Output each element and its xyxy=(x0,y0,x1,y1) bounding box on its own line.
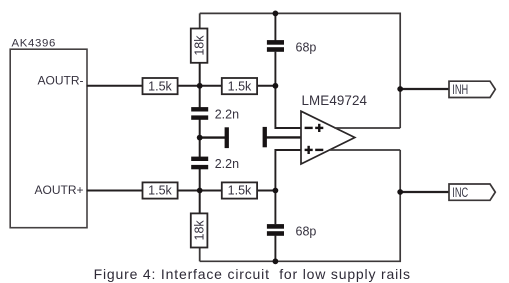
wire op-amp OUT- (bottom output) xyxy=(330,149,400,151)
label 2.2n (lower) xyxy=(215,157,239,171)
svg-text:2.2n: 2.2n xyxy=(215,107,239,121)
wire op-amp IN- lead xyxy=(275,86,301,128)
junction node A (row1 / middle chain) xyxy=(197,83,203,89)
label 2.2n (upper) xyxy=(215,107,239,121)
svg-text:Figure 4: Interface circuit f: Figure 4: Interface circuit for low supp… xyxy=(94,266,411,282)
wire 68p bottom stub lower xyxy=(274,236,276,262)
op-amp output polarity plus (top-right inside) xyxy=(315,124,323,132)
capacitor 68p (top) xyxy=(267,40,284,52)
resistor 1.5k (bottom right) xyxy=(222,182,257,198)
junction node B (row1 / 68p stub) xyxy=(273,83,279,89)
terminal bar (VOCM tap) xyxy=(225,127,229,148)
wire op-amp VOCM lead xyxy=(267,136,302,138)
wire middle vertical chain segment B (between caps C3,C4) xyxy=(199,120,201,158)
wire middle vertical chain segment A (node A to cap C3) xyxy=(199,86,201,108)
op-amp U2 LME49724 triangle xyxy=(301,111,355,164)
pin label AOUTR- xyxy=(38,73,84,87)
wire INC branch xyxy=(400,191,449,193)
svg-text:18k: 18k xyxy=(192,220,206,241)
label 68p (top) xyxy=(296,40,317,54)
IC U1 AK4396 box xyxy=(10,49,87,228)
svg-text:1.5k: 1.5k xyxy=(228,184,252,198)
svg-text:INH: INH xyxy=(452,81,468,98)
wire 68p top stub upper xyxy=(274,13,276,40)
wire top 18k upper stub xyxy=(199,13,201,28)
resistor 1.5k (top left) xyxy=(143,78,178,94)
junction node INC (right rail) xyxy=(397,189,403,195)
svg-text:1.5k: 1.5k xyxy=(228,79,252,93)
net tag INH xyxy=(449,81,495,98)
wire middle vertical chain segment C (cap C4 to node D) xyxy=(199,169,201,191)
wire 68p bottom stub upper xyxy=(274,191,276,225)
wire op-amp IN+ lead xyxy=(275,150,301,191)
wire op-amp OUT+ (top output) xyxy=(335,127,401,129)
terminal bar (op-amp VOCM pin) xyxy=(263,127,267,147)
label AK4396 xyxy=(12,38,56,50)
junction node INH (right rail) xyxy=(397,86,403,92)
op-amp input polarity minus (top-left inside) xyxy=(305,127,313,129)
wire top feedback rail xyxy=(200,13,401,128)
junction node C (middle chain / VOCM tap) xyxy=(197,135,203,141)
svg-text:2.2n: 2.2n xyxy=(215,157,239,171)
wire 68p top stub lower xyxy=(274,52,276,86)
resistor 1.5k (bottom left) xyxy=(143,182,178,198)
svg-text:LME49724: LME49724 xyxy=(302,93,368,108)
wire top 18k lower stub xyxy=(199,63,201,86)
resistor 18k (bottom) xyxy=(191,213,208,247)
svg-text:AOUTR+: AOUTR+ xyxy=(34,183,83,197)
junction node on bottom rail (68p stub) xyxy=(273,258,279,264)
capacitor 2.2n (upper) xyxy=(191,107,208,120)
svg-text:68p: 68p xyxy=(296,40,317,54)
junction node D (row2 / middle chain) xyxy=(197,188,203,194)
label 68p (bottom) xyxy=(296,224,317,238)
svg-text:68p: 68p xyxy=(296,224,317,238)
wire INH branch xyxy=(400,88,449,90)
wire AOUTR+ row xyxy=(87,190,276,192)
wire AOUTR- row xyxy=(87,85,276,87)
svg-text:1.5k: 1.5k xyxy=(148,79,172,93)
wire VOCM tap from node C xyxy=(200,136,225,138)
svg-text:18k: 18k xyxy=(192,35,206,56)
resistor 18k (top) xyxy=(191,29,208,63)
wire bottom 18k upper stub xyxy=(199,191,201,214)
op-amp output polarity minus (bottom-right inside) xyxy=(315,149,323,151)
pin label AOUTR+ xyxy=(34,183,83,197)
svg-text:INC: INC xyxy=(452,184,468,201)
resistor 1.5k (top right) xyxy=(222,78,257,94)
capacitor 68p (bottom) xyxy=(267,224,284,236)
label LME49724 xyxy=(302,93,368,108)
svg-text:AK4396: AK4396 xyxy=(12,38,56,50)
capacitor 2.2n (lower) xyxy=(191,157,208,170)
junction node E (row2 / 68p stub) xyxy=(273,188,279,194)
junction node on top rail (68p stub) xyxy=(273,11,279,17)
wire bottom 18k lower stub xyxy=(199,248,201,262)
svg-text:1.5k: 1.5k xyxy=(148,184,172,198)
caption Figure 4 xyxy=(94,266,411,282)
wire bottom feedback rail xyxy=(200,150,401,261)
net tag INC xyxy=(449,184,495,201)
svg-text:AOUTR-: AOUTR- xyxy=(38,73,84,87)
op-amp input polarity plus (bottom-left inside) xyxy=(305,146,313,154)
